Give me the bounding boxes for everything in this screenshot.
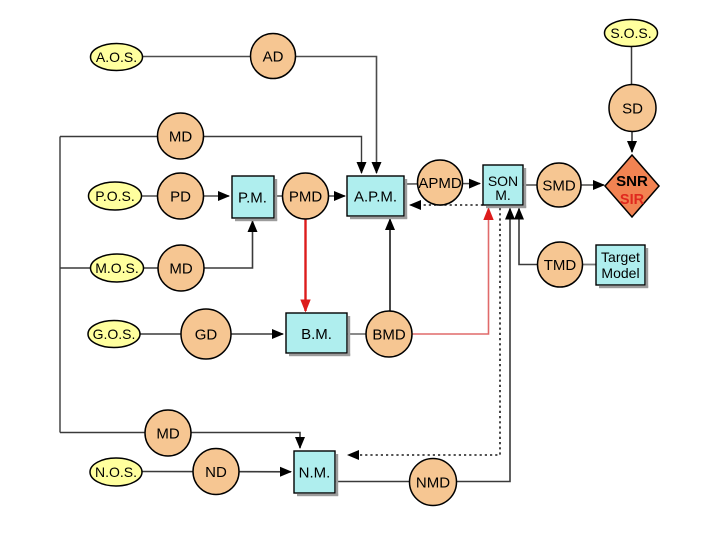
node B.M. box (286, 313, 350, 356)
svg-text:MD: MD (156, 426, 179, 443)
node A.O.S. (91, 44, 143, 71)
wire A.O.S. to AD to A.P.M. top (143, 57, 377, 174)
wire N.O.S. to ND to N.M. (142, 471, 291, 473)
node P.M. box (232, 176, 277, 221)
svg-text:SIR: SIR (620, 192, 645, 208)
node PD (158, 173, 204, 219)
node N.M. box (294, 451, 338, 496)
svg-text:A.O.S.: A.O.S. (96, 49, 137, 65)
wire TMD to Target Model (583, 264, 597, 266)
node A.P.M. box (347, 176, 407, 219)
wire dotted SON M. to A.P.M. right (410, 204, 483, 206)
wire G.O.S. to GD to B.M. (140, 333, 283, 335)
wire P.O.S. to PD to P.M. (142, 195, 229, 197)
wire P.M. to PMD to A.P.M. (274, 195, 345, 197)
node Target Model box (596, 245, 648, 288)
node SON M. box (483, 165, 526, 208)
wire N.M. to NMD to SON M. bottom (335, 209, 510, 482)
svg-text:Model: Model (601, 265, 639, 281)
node MD mid (158, 245, 204, 291)
node TMD (538, 242, 583, 287)
svg-text:BMD: BMD (372, 327, 406, 344)
svg-text:SMD: SMD (542, 178, 576, 195)
node NMD (410, 459, 457, 506)
node G.O.S. (88, 321, 140, 348)
wire TMD to SON M. bottom (519, 209, 538, 265)
node S.O.S. (605, 20, 658, 47)
node BMD (366, 311, 412, 357)
wire SON M. to SMD to diamond (523, 184, 604, 186)
wire BMD up into A.P.M. bottom (389, 219, 391, 312)
svg-text:GD: GD (195, 327, 218, 344)
svg-text:N.M.: N.M. (299, 465, 331, 482)
svg-text:AD: AD (263, 49, 284, 66)
svg-text:SNR: SNR (616, 173, 648, 190)
svg-text:ND: ND (205, 464, 227, 481)
svg-text:P.M.: P.M. (238, 190, 267, 207)
svg-text:N.O.S.: N.O.S. (95, 464, 137, 480)
svg-text:M.O.S.: M.O.S. (95, 260, 139, 276)
svg-text:B.M.: B.M. (301, 326, 332, 343)
node P.O.S. (89, 182, 142, 210)
wire dotted SON M. down to N.M. (348, 208, 500, 455)
svg-text:MD: MD (169, 261, 192, 278)
node SNR SIR diamond (605, 155, 659, 217)
svg-text:SD: SD (622, 101, 643, 118)
node MD top (158, 113, 204, 159)
wire S.O.S. to SD (631, 47, 633, 85)
node ND (193, 449, 239, 495)
wire M.O.S. row into P.M. bottom (60, 221, 253, 268)
svg-text:M.: M. (495, 187, 511, 203)
svg-text:NMD: NMD (416, 475, 450, 492)
wire left vertical bus (59, 137, 61, 433)
wire SD to diamond top (631, 132, 633, 153)
node SD (609, 85, 656, 132)
wire MD(bottom) line into N.M. top (60, 433, 300, 449)
svg-text:APMD: APMD (418, 175, 462, 192)
node MD bottom (145, 410, 191, 456)
svg-text:PD: PD (170, 189, 191, 206)
wire red BMD to SON M. bottom (412, 209, 489, 335)
svg-text:Target: Target (601, 249, 640, 265)
node N.O.S. (90, 458, 142, 486)
node GD (181, 309, 231, 359)
wire A.P.M. to APMD to SON M. (404, 183, 480, 186)
svg-text:S.O.S.: S.O.S. (610, 25, 651, 41)
node APMD (418, 160, 463, 205)
node PMD (283, 173, 329, 219)
node SMD (537, 163, 581, 207)
svg-text:TMD: TMD (544, 257, 577, 274)
node AD (251, 34, 296, 79)
svg-text:MD: MD (169, 129, 192, 146)
node M.O.S. (91, 254, 144, 282)
wire red PMD down into B.M. top (304, 218, 306, 311)
svg-text:A.P.M.: A.P.M. (354, 189, 397, 206)
svg-text:P.O.S.: P.O.S. (95, 188, 134, 204)
svg-text:PMD: PMD (289, 189, 323, 206)
wire B.M. to BMD (347, 333, 367, 335)
svg-text:G.O.S.: G.O.S. (93, 326, 136, 342)
wire MD(top) line into A.P.M. top (60, 137, 362, 174)
